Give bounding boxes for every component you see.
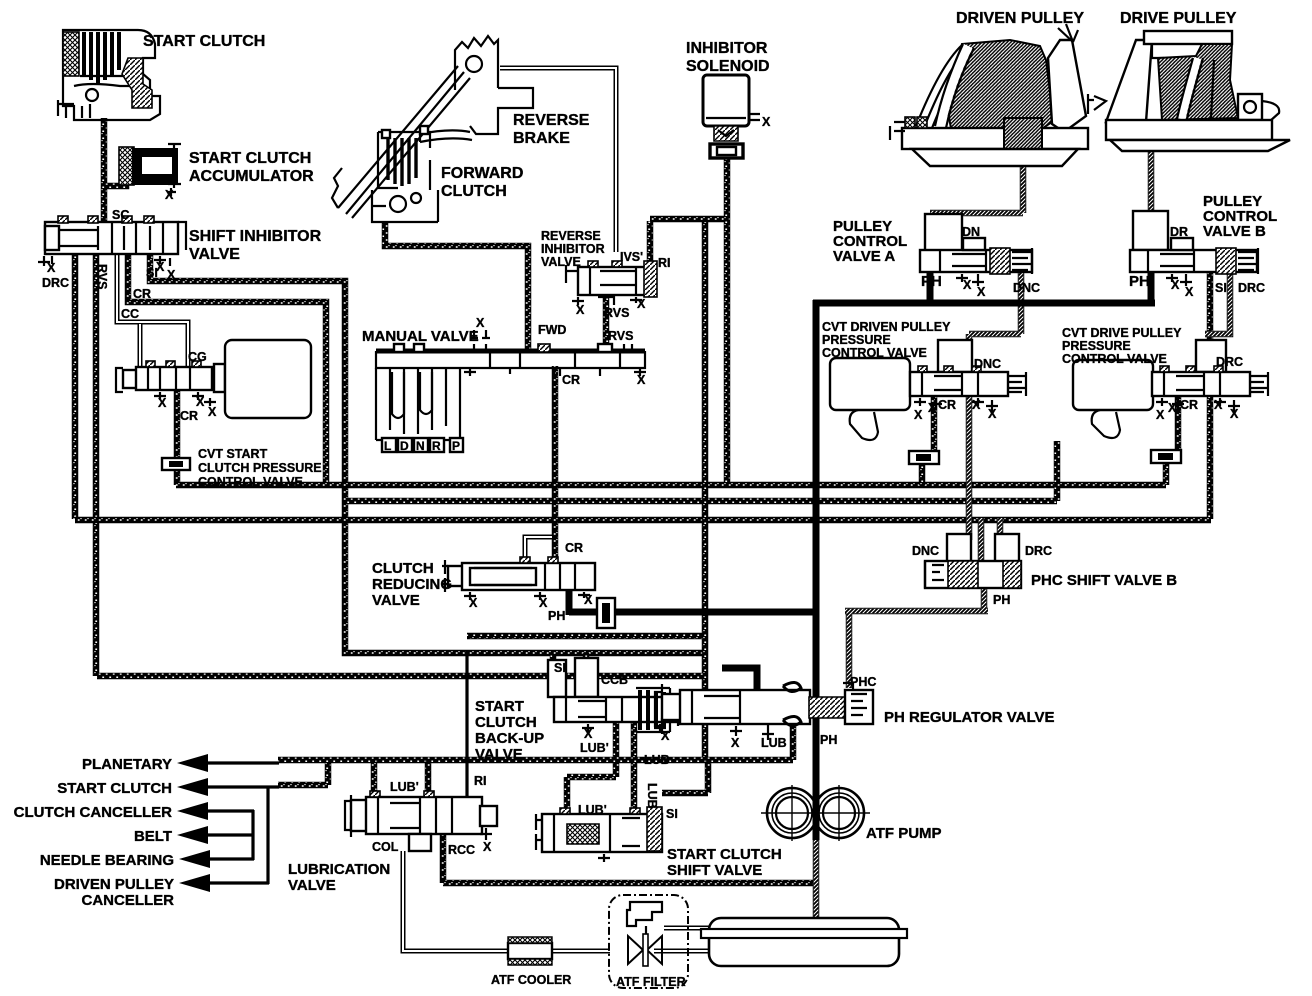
- wire belt arrow line: [205, 833, 254, 836]
- wire FWD line: [385, 223, 528, 352]
- svg-text:X: X: [762, 115, 771, 129]
- svg-text:CR: CR: [562, 373, 580, 387]
- svg-text:DRC: DRC: [42, 276, 69, 290]
- lubrication valve: [345, 791, 497, 851]
- wire CC parallel branch: [138, 324, 143, 367]
- shift inhibitor valve: [38, 216, 186, 266]
- wire lube bus: [278, 722, 793, 760]
- svg-text:SI: SI: [554, 661, 566, 675]
- svg-text:CR: CR: [180, 409, 198, 423]
- svg-text:SOLENOID: SOLENOID: [686, 58, 770, 75]
- svg-text:X: X: [1185, 285, 1194, 299]
- svg-text:SI: SI: [146, 266, 158, 280]
- arrow driven pulley canceller: [179, 874, 210, 892]
- CVT start clutch pressure control valve: [116, 340, 311, 470]
- svg-text:PHC: PHC: [850, 675, 876, 689]
- svg-text:BRAKE: BRAKE: [513, 130, 570, 147]
- CR orifice fitting: [162, 458, 190, 470]
- CVT driven pulley pressure control valve: [830, 340, 1026, 464]
- svg-text:X: X: [1230, 407, 1239, 421]
- PH line orifice fitting: [597, 598, 615, 628]
- wire canceller group vertical 2: [266, 786, 269, 884]
- svg-text:PH: PH: [1129, 273, 1150, 290]
- svg-text:LUB: LUB: [644, 753, 670, 767]
- svg-text:CLUTCH: CLUTCH: [372, 560, 434, 577]
- wire start clutch branch: [278, 763, 328, 785]
- wire CR drop from CVT start clutch pressure control valve: [174, 388, 181, 485]
- PHC shift valve B: [925, 534, 1021, 588]
- arrow clutch canceller: [177, 802, 208, 820]
- svg-text:VALVE: VALVE: [372, 592, 420, 609]
- pulley control valve A: [920, 214, 1032, 286]
- svg-text:CVT START: CVT START: [198, 447, 268, 461]
- svg-text:SC: SC: [112, 208, 129, 222]
- ATF cooler: [508, 937, 552, 965]
- svg-text:D: D: [400, 439, 409, 453]
- svg-text:PH: PH: [993, 593, 1010, 607]
- wire drive CR fitting links: [1166, 396, 1178, 485]
- wire reverse brake line: [500, 68, 616, 252]
- wire LUB' drop to shift valve: [567, 722, 616, 814]
- svg-text:PH: PH: [820, 733, 837, 747]
- wire frame line y636: [467, 633, 705, 640]
- svg-text:VALVE: VALVE: [541, 255, 581, 269]
- arrow start clutch: [177, 778, 208, 796]
- oil pan: [701, 918, 907, 966]
- svg-text:SI: SI: [1215, 281, 1227, 295]
- wire PH stub pulley control valve B: [1148, 270, 1155, 306]
- svg-text:ATF COOLER: ATF COOLER: [491, 973, 571, 987]
- svg-text:PH: PH: [921, 273, 942, 290]
- wire middle bus 2: [346, 441, 1057, 501]
- driven pulley drawing: [890, 24, 1088, 166]
- wire RI link: [650, 219, 727, 263]
- svg-text:X: X: [637, 297, 646, 311]
- svg-text:CLUTCH PRESSURE: CLUTCH PRESSURE: [198, 461, 322, 475]
- svg-text:DN: DN: [962, 225, 980, 239]
- wire drive pulley feed: [1148, 146, 1155, 213]
- wire driven pulley canceller arrow line: [205, 881, 269, 884]
- start clutch back-up valve: [548, 658, 685, 732]
- svg-text:PH: PH: [548, 609, 565, 623]
- svg-text:CONTROL VALVE: CONTROL VALVE: [822, 346, 927, 360]
- svg-text:X: X: [661, 729, 670, 743]
- svg-text:DNC: DNC: [1013, 281, 1040, 295]
- wire SI line from shift inhibitor valve: [150, 252, 705, 653]
- reverse inhibitor valve: [566, 261, 657, 305]
- wire second line down from shift inhibitor valve: [93, 252, 100, 676]
- svg-text:VALVE: VALVE: [475, 746, 523, 763]
- wire PH thick top bus: [813, 300, 1155, 307]
- svg-text:DRIVE PULLEY: DRIVE PULLEY: [1120, 10, 1237, 27]
- svg-text:DRIVEN PULLEY: DRIVEN PULLEY: [54, 876, 174, 893]
- svg-text:CR: CR: [938, 398, 956, 412]
- wire DRC riser to PHC shift valve B: [997, 518, 1004, 540]
- wire RI dark line: [465, 650, 468, 799]
- svg-text:PRESSURE: PRESSURE: [822, 333, 891, 347]
- manual valve: [376, 330, 646, 453]
- wire RCC bus: [443, 832, 813, 883]
- svg-text:REDUCING: REDUCING: [372, 576, 452, 593]
- svg-text:X: X: [1168, 401, 1177, 415]
- drive pulley drawing: [1088, 31, 1290, 151]
- svg-text:VALVE: VALVE: [189, 246, 240, 263]
- svg-text:DNC: DNC: [912, 544, 939, 558]
- svg-text:X: X: [469, 596, 478, 610]
- wire SC pipe from start clutch: [101, 118, 108, 224]
- wire canceller group vertical: [251, 810, 254, 860]
- svg-text:START CLUTCH: START CLUTCH: [57, 780, 172, 797]
- svg-text:FORWARD: FORWARD: [441, 165, 523, 182]
- svg-text:X: X: [167, 268, 176, 282]
- svg-text:VALVE A: VALVE A: [833, 248, 895, 265]
- svg-text:CC: CC: [121, 307, 139, 321]
- svg-text:X: X: [576, 303, 585, 317]
- wire CR line from shift inhibitor valve: [128, 252, 326, 483]
- wire SI link to start clutch shift valve: [662, 758, 708, 793]
- wire PH line to PHC shift valve B: [845, 586, 988, 688]
- svg-text:X: X: [972, 398, 981, 412]
- wire start clutch arrow line: [205, 785, 279, 788]
- svg-text:ATF PUMP: ATF PUMP: [866, 825, 942, 842]
- svg-text:N: N: [416, 439, 425, 453]
- wire CC line: [117, 252, 188, 367]
- svg-text:VALVE B: VALVE B: [1203, 223, 1266, 240]
- wire PH thick line from clutch reducing valve: [569, 585, 819, 615]
- svg-text:X: X: [476, 316, 485, 330]
- svg-text:X: X: [1171, 278, 1180, 292]
- svg-text:START: START: [475, 698, 524, 715]
- svg-text:DRC: DRC: [1216, 355, 1243, 369]
- svg-text:R: R: [432, 439, 441, 453]
- svg-text:INHIBITOR: INHIBITOR: [686, 40, 768, 57]
- svg-text:LUBRICATION: LUBRICATION: [288, 861, 390, 878]
- svg-text:X: X: [963, 278, 972, 292]
- svg-text:CLUTCH CANCELLER: CLUTCH CANCELLER: [14, 804, 172, 821]
- svg-text:CR: CR: [133, 287, 151, 301]
- svg-text:X: X: [208, 405, 217, 419]
- svg-text:LUB': LUB': [580, 741, 609, 755]
- svg-text:PH REGULATOR VALVE: PH REGULATOR VALVE: [884, 709, 1055, 726]
- svg-text:X: X: [988, 407, 997, 421]
- svg-text:RI: RI: [658, 256, 671, 270]
- svg-text:START CLUTCH: START CLUTCH: [667, 846, 782, 863]
- svg-text:PRESSURE: PRESSURE: [1062, 339, 1131, 353]
- svg-text:LUB: LUB: [645, 783, 659, 809]
- arrow needle bearing: [179, 850, 210, 868]
- arrow planetary: [177, 754, 208, 772]
- wire PH regulator inlet L: [722, 668, 757, 692]
- svg-text:L: L: [384, 439, 391, 453]
- svg-text:CLUTCH: CLUTCH: [441, 183, 507, 200]
- svg-text:DNC: DNC: [974, 357, 1001, 371]
- svg-text:CR: CR: [1180, 398, 1198, 412]
- reverse brake drawing: [332, 36, 533, 218]
- wire CR manual valve line: [552, 366, 559, 564]
- wire PH stub pulley control valve A: [927, 270, 934, 303]
- svg-text:CCB: CCB: [601, 673, 628, 687]
- svg-text:X: X: [483, 840, 492, 854]
- clutch reducing valve: [442, 557, 595, 600]
- svg-text:PLANETARY: PLANETARY: [82, 756, 172, 773]
- start clutch shift valve: [536, 807, 662, 862]
- start clutch assembly: [58, 30, 160, 120]
- svg-text:INHIBITOR: INHIBITOR: [541, 242, 605, 256]
- svg-text:DRC: DRC: [1025, 544, 1052, 558]
- svg-text:X: X: [165, 188, 174, 202]
- svg-text:CR: CR: [565, 541, 583, 555]
- svg-text:ATF FILTER: ATF FILTER: [616, 975, 686, 989]
- svg-text:REVERSE: REVERSE: [513, 112, 590, 129]
- svg-text:NEEDLE BEARING: NEEDLE BEARING: [40, 852, 174, 869]
- svg-text:PHC SHIFT VALVE B: PHC SHIFT VALVE B: [1031, 572, 1177, 589]
- wire CR loop at clutch reducing valve: [525, 537, 552, 561]
- svg-text:CG: CG: [188, 350, 207, 364]
- wire planetary arrow line: [205, 761, 279, 764]
- svg-text:X: X: [196, 395, 205, 409]
- wire clutch canceller arrow line: [205, 809, 254, 812]
- svg-text:LUB': LUB': [390, 780, 419, 794]
- wire pump to pan: [813, 838, 820, 920]
- wire DRC line from pulley control valve B: [1205, 270, 1230, 334]
- svg-text:X: X: [914, 408, 923, 422]
- wire ATF cooler loop: [403, 851, 711, 951]
- svg-text:START CLUTCH: START CLUTCH: [143, 33, 265, 50]
- svg-text:X: X: [158, 396, 167, 410]
- svg-text:SHIFT VALVE: SHIFT VALVE: [667, 862, 762, 879]
- svg-text:X: X: [731, 736, 740, 750]
- svg-text:CANCELLER: CANCELLER: [82, 892, 175, 909]
- wire accumulator elbow: [104, 178, 126, 186]
- svg-text:LUB': LUB': [578, 803, 607, 817]
- svg-text:REVERSE: REVERSE: [541, 229, 601, 243]
- wire CR bus: [176, 482, 1166, 489]
- svg-text:X: X: [584, 727, 593, 741]
- svg-text:X: X: [1214, 398, 1223, 412]
- svg-text:MANUAL VALVE: MANUAL VALVE: [362, 328, 479, 345]
- wire driven pulley feed: [930, 158, 1023, 213]
- svg-text:CONTROL VALVE: CONTROL VALVE: [198, 475, 303, 489]
- wire CCB stub: [583, 653, 590, 697]
- PH regulator valve: [655, 682, 873, 740]
- svg-text:DRC: DRC: [1238, 281, 1265, 295]
- wire DRC down from shift inhibitor valve: [72, 252, 79, 519]
- svg-text:COL: COL: [372, 840, 399, 854]
- wire SI stub to back-up valve: [550, 653, 557, 697]
- svg-text:FWD: FWD: [538, 323, 566, 337]
- svg-text:CVT DRIVE PULLEY: CVT DRIVE PULLEY: [1062, 326, 1182, 340]
- pulley control valve B: [1130, 211, 1258, 286]
- svg-text:X: X: [928, 401, 937, 415]
- CVT drive pulley pressure control valve: [1073, 340, 1268, 463]
- svg-text:VALVE: VALVE: [288, 877, 336, 894]
- svg-text:CONTROL VALVE: CONTROL VALVE: [1062, 352, 1167, 366]
- start clutch accumulator: [119, 144, 181, 196]
- svg-text:SHIFT INHIBITOR: SHIFT INHIBITOR: [189, 228, 322, 245]
- svg-text:BACK-UP: BACK-UP: [475, 730, 544, 747]
- svg-text:X: X: [47, 261, 56, 275]
- svg-text:BELT: BELT: [134, 828, 172, 845]
- svg-text:X: X: [977, 285, 986, 299]
- svg-text:DR: DR: [1170, 225, 1188, 239]
- wire driven CR fitting links: [922, 396, 934, 485]
- svg-text:X: X: [1156, 408, 1165, 422]
- wire RVS line: [603, 293, 610, 352]
- svg-text:IVS': IVS': [620, 250, 643, 264]
- svg-text:START CLUTCH: START CLUTCH: [189, 150, 311, 167]
- forward clutch drawing: [372, 126, 438, 222]
- svg-text:RVS: RVS: [95, 264, 109, 289]
- wire long vertical to lube bus: [702, 219, 709, 758]
- ATF filter: [609, 895, 688, 988]
- svg-text:DRIVEN PULLEY: DRIVEN PULLEY: [956, 10, 1084, 27]
- svg-text:CVT DRIVEN PULLEY: CVT DRIVEN PULLEY: [822, 320, 951, 334]
- svg-text:CLUTCH: CLUTCH: [475, 714, 537, 731]
- svg-text:ACCUMULATOR: ACCUMULATOR: [189, 168, 314, 185]
- svg-text:RVS: RVS: [604, 306, 629, 320]
- svg-text:RI: RI: [474, 774, 487, 788]
- wire PH main thick vertical: [813, 300, 820, 792]
- ATF pump: [761, 785, 870, 841]
- wire LUB' risers: [374, 760, 428, 797]
- svg-text:X: X: [584, 593, 593, 607]
- svg-text:X: X: [637, 373, 646, 387]
- svg-text:X: X: [539, 596, 548, 610]
- svg-text:P: P: [452, 439, 460, 453]
- inhibitor solenoid: [703, 75, 760, 158]
- wire inhibitor solenoid line: [724, 156, 731, 483]
- svg-text:LUB: LUB: [761, 736, 787, 750]
- wire DNC line: [969, 270, 1021, 540]
- svg-text:RCC: RCC: [448, 843, 475, 857]
- wire frame line y676: [97, 673, 705, 680]
- wire SI/DRC bus 3: [75, 270, 1211, 520]
- svg-text:RVS: RVS: [608, 329, 633, 343]
- wire needle bearing arrow line: [205, 857, 254, 860]
- wire LUB drop to shift valve: [631, 722, 638, 814]
- svg-text:SI: SI: [666, 807, 678, 821]
- arrow belt: [177, 826, 208, 844]
- wire PHC-B center column: [978, 518, 985, 561]
